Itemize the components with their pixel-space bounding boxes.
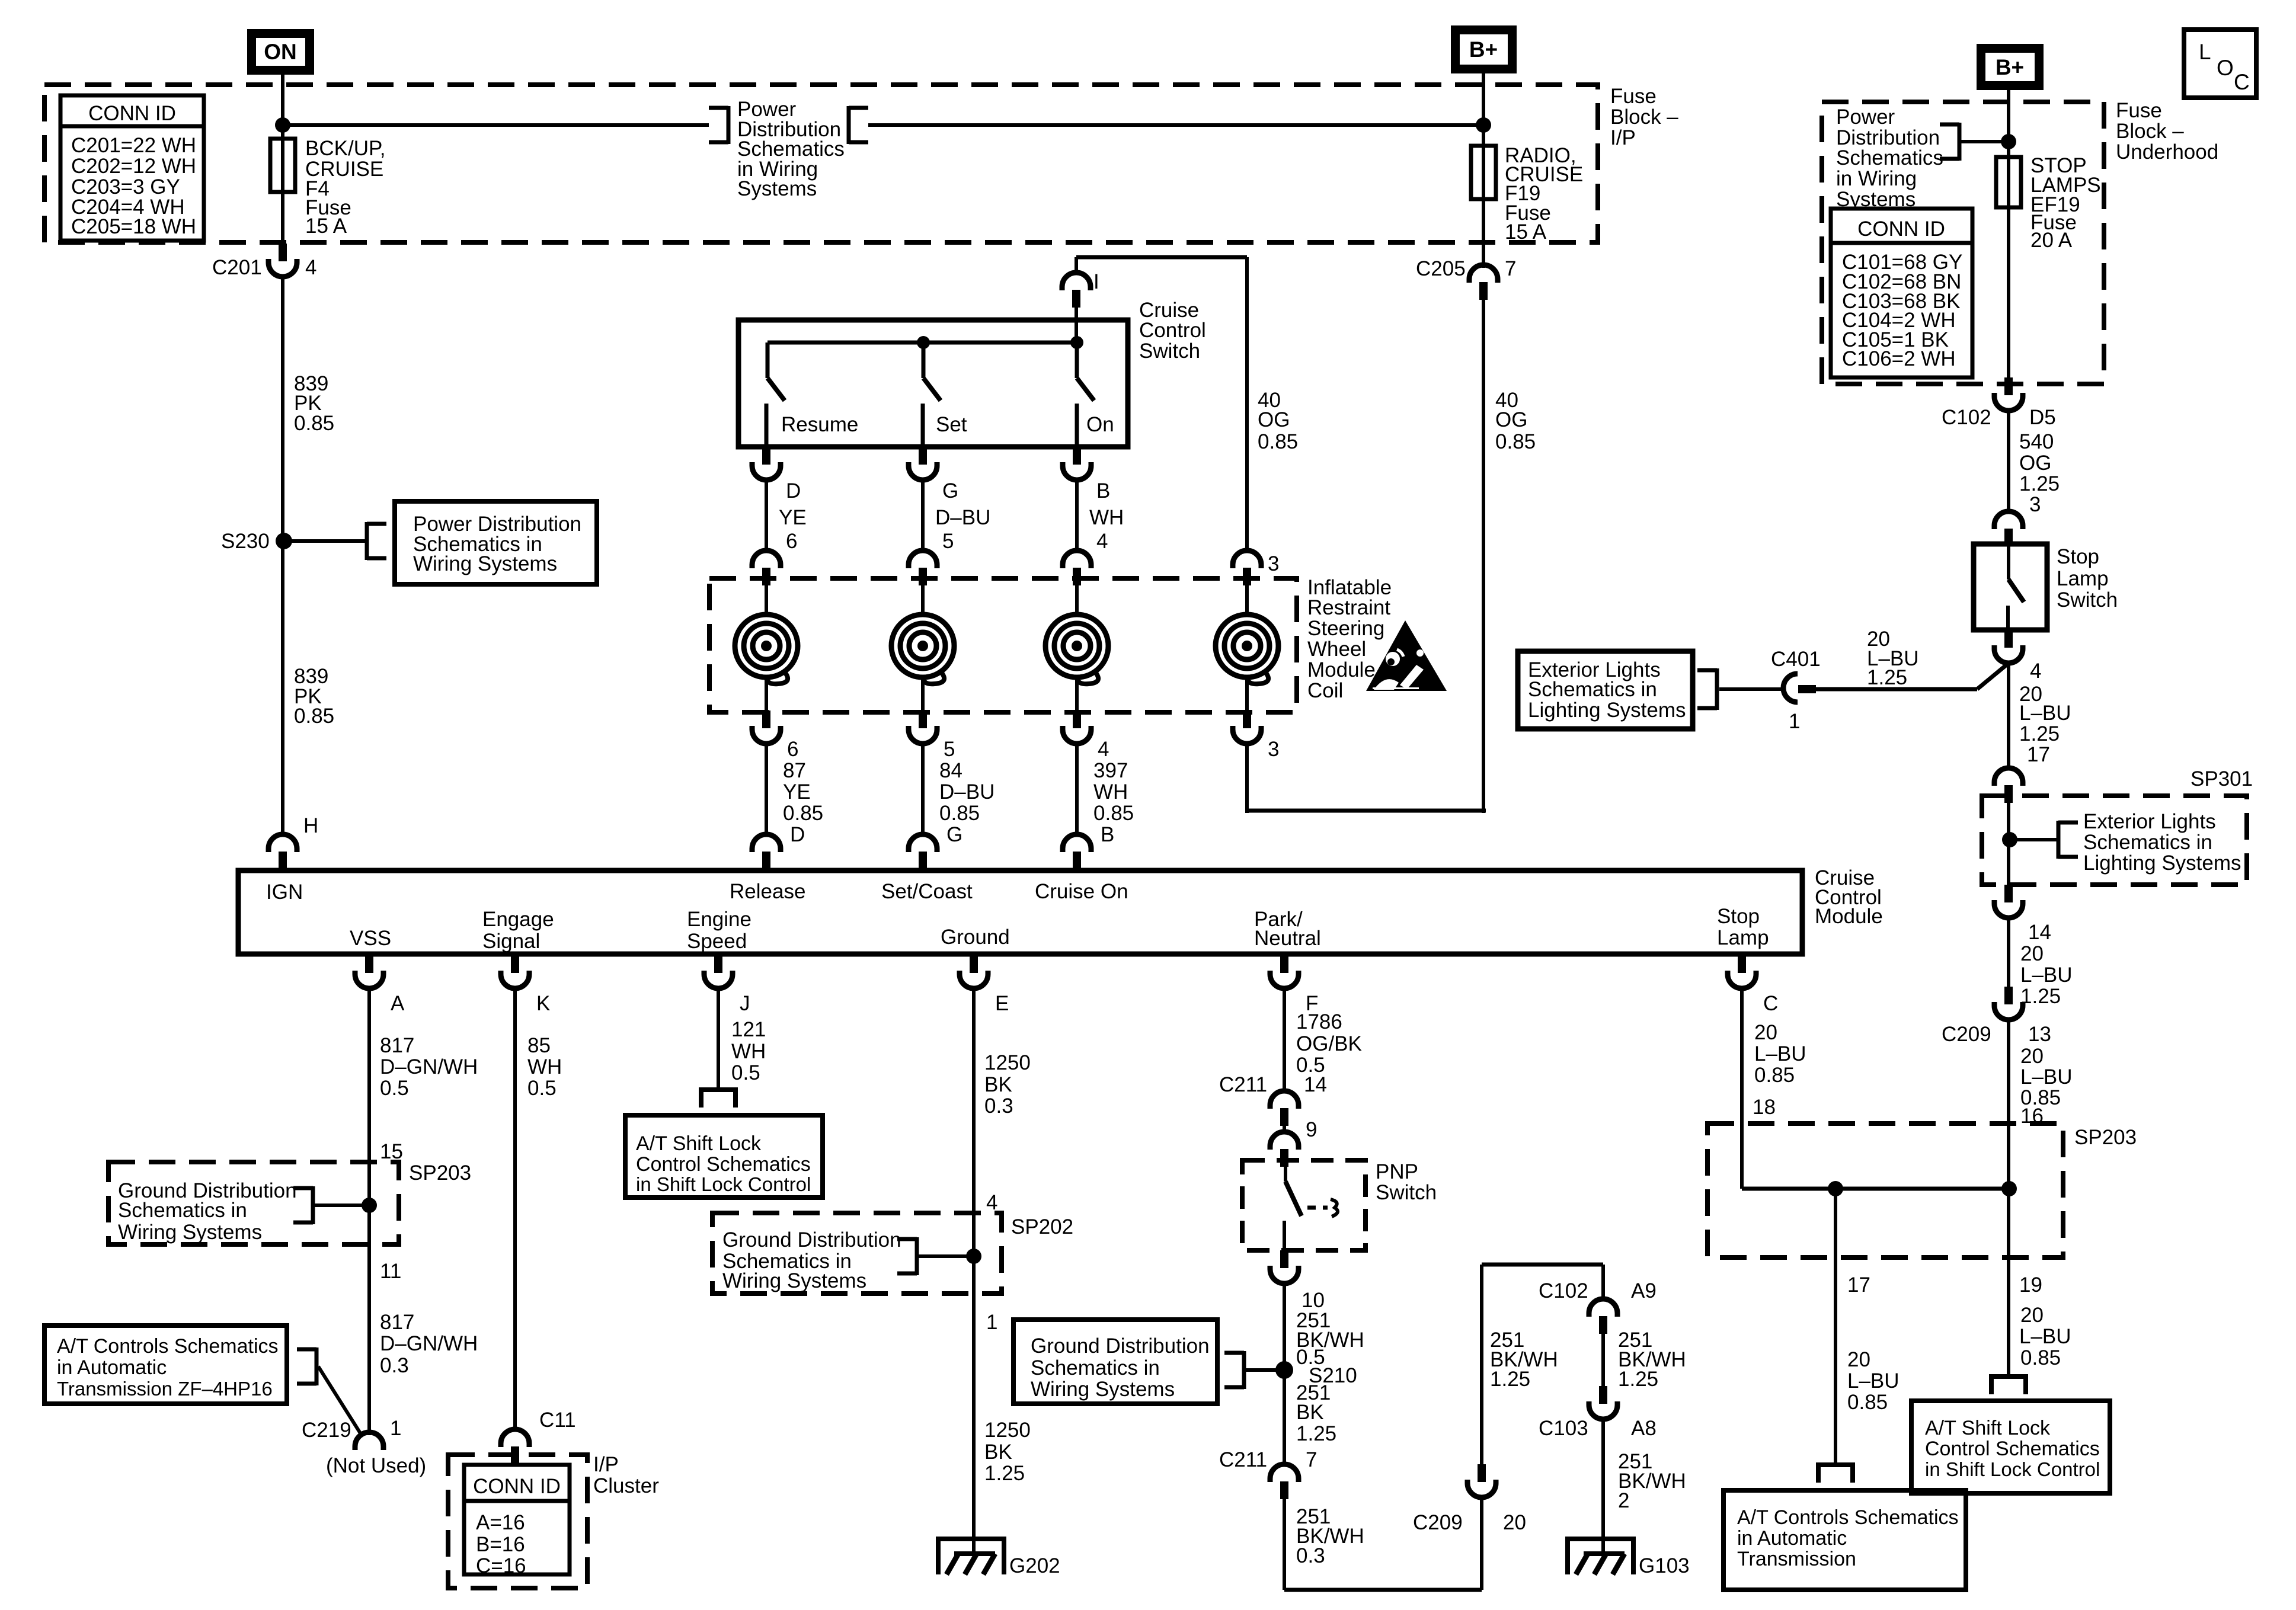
svg-text:84: 84 xyxy=(939,759,962,782)
svg-text:B=16: B=16 xyxy=(476,1533,525,1556)
svg-text:C11: C11 xyxy=(539,1409,576,1432)
svg-text:14: 14 xyxy=(1304,1073,1327,1096)
fuse block I/P dashed box xyxy=(44,85,1598,242)
svg-text:C211: C211 xyxy=(1219,1448,1267,1471)
callout Ground Distribution Schematics in Wiring Systems (S210) xyxy=(1013,1320,1244,1404)
connector C401 pin 1 xyxy=(1771,648,1821,733)
connector module pin H xyxy=(268,814,318,869)
connector switch pin D xyxy=(752,447,807,553)
connector module bottom pin J xyxy=(704,955,750,1015)
svg-text:L–BU: L–BU xyxy=(2020,1065,2073,1089)
node splice on A wire xyxy=(362,1198,377,1213)
svg-text:Ground Distribution: Ground Distribution xyxy=(1031,1334,1210,1358)
svg-text:CONN ID: CONN ID xyxy=(88,102,176,125)
svg-text:0.3: 0.3 xyxy=(984,1094,1013,1118)
svg-text:Restraint: Restraint xyxy=(1307,596,1390,619)
coil G xyxy=(891,585,954,710)
svg-text:5: 5 xyxy=(944,738,955,761)
svg-text:4: 4 xyxy=(1096,530,1108,553)
svg-text:E: E xyxy=(995,992,1009,1015)
svg-text:3: 3 xyxy=(2029,493,2041,516)
svg-text:Stop: Stop xyxy=(2057,545,2099,568)
svg-text:Block –: Block – xyxy=(1610,105,1678,129)
wire I stub xyxy=(1076,257,1099,293)
svg-text:Switch: Switch xyxy=(1139,340,1200,363)
wire 251 BK/WH 2 xyxy=(1603,1419,1686,1539)
svg-text:0.85: 0.85 xyxy=(294,412,334,435)
svg-text:0.85: 0.85 xyxy=(1495,430,1536,453)
wire 1250 BK 0.3 xyxy=(974,988,1031,1539)
svg-text:A: A xyxy=(391,992,405,1015)
svg-text:11: 11 xyxy=(380,1260,401,1283)
SRS warning triangle icon xyxy=(1366,620,1447,691)
svg-text:0.85: 0.85 xyxy=(1847,1391,1888,1414)
connector C201 pin 4 xyxy=(212,244,316,279)
svg-text:OG: OG xyxy=(1258,408,1290,431)
svg-text:Schematics in: Schematics in xyxy=(118,1199,247,1222)
svg-text:1.25: 1.25 xyxy=(2020,985,2061,1008)
svg-text:15 A: 15 A xyxy=(1505,220,1547,244)
connector switch pin G xyxy=(909,447,990,553)
connector into SP301 xyxy=(1994,768,2023,803)
CONN ID table (underhood) xyxy=(1831,209,1972,377)
svg-text:20: 20 xyxy=(2020,1045,2044,1068)
svg-text:J: J xyxy=(740,992,750,1015)
svg-text:in Shift Lock Control: in Shift Lock Control xyxy=(636,1173,811,1195)
svg-text:Exterior Lights: Exterior Lights xyxy=(2083,810,2216,833)
svg-text:0.85: 0.85 xyxy=(1093,802,1134,825)
wire ON feed down to fuse F4 xyxy=(281,75,284,244)
callout Exterior Lights Schematics in Lighting Systems box (C401) xyxy=(1518,651,1717,729)
wire C209 up and over to C102 xyxy=(1482,1265,1603,1464)
wire 839 PK 0.85 upper xyxy=(283,278,334,541)
svg-text:Schematics: Schematics xyxy=(1836,146,1943,169)
svg-text:20 A: 20 A xyxy=(2030,229,2073,252)
connector module top pin B xyxy=(1063,834,1091,869)
connector C211 pin 14 xyxy=(1219,1073,1327,1126)
wire SP203 internal bus xyxy=(1742,1187,2009,1191)
svg-text:1.25: 1.25 xyxy=(1296,1422,1336,1445)
splice SP203 dashed box (right) xyxy=(1707,1124,2137,1257)
wire 84 D–BU to module xyxy=(921,744,925,837)
svg-text:1250: 1250 xyxy=(984,1419,1031,1442)
svg-text:17: 17 xyxy=(2027,743,2050,766)
module pin labels row1 xyxy=(266,880,1128,904)
node bus junction Set xyxy=(917,336,930,349)
connector C209 pin 13 xyxy=(1942,987,2051,1046)
coil B xyxy=(1045,585,1108,710)
wire inside SP301 xyxy=(2007,803,2010,885)
svg-text:87: 87 xyxy=(783,759,806,782)
svg-text:C205=18 WH: C205=18 WH xyxy=(71,215,196,238)
svg-text:L–BU: L–BU xyxy=(1847,1369,1900,1393)
node splice S210 xyxy=(1275,1361,1357,1387)
svg-text:Schematics in: Schematics in xyxy=(1031,1356,1160,1379)
svg-text:BCK/UP,: BCK/UP, xyxy=(305,137,386,160)
svg-text:9: 9 xyxy=(1306,1118,1317,1141)
switch Set xyxy=(923,343,967,447)
svg-text:IGN: IGN xyxy=(266,881,303,904)
splice SP301 dashed box xyxy=(1982,767,2253,885)
fuse F4 xyxy=(270,137,386,238)
svg-text:Set: Set xyxy=(936,413,967,436)
svg-text:0.3: 0.3 xyxy=(1296,1544,1325,1567)
wire 40 OG 0.85 label (coil-4 drop) xyxy=(1258,389,1298,453)
svg-text:Wiring Systems: Wiring Systems xyxy=(722,1269,866,1292)
svg-text:0.5: 0.5 xyxy=(527,1077,557,1100)
svg-text:OG: OG xyxy=(2019,452,2051,475)
svg-text:D: D xyxy=(786,479,801,502)
svg-text:Control Schematics: Control Schematics xyxy=(1925,1438,2100,1460)
svg-text:L: L xyxy=(2199,40,2211,64)
stop lamp switch box xyxy=(1974,544,2118,630)
svg-text:Wiring Systems: Wiring Systems xyxy=(413,552,557,575)
wire G to coil xyxy=(921,480,925,551)
svg-text:OG/BK: OG/BK xyxy=(1296,1032,1362,1055)
svg-text:Switch: Switch xyxy=(2057,588,2118,612)
ground G202 xyxy=(938,1539,1060,1577)
wire 20 L-BU 0.85 (module C) xyxy=(1742,988,1806,1164)
connector module bottom pin C xyxy=(1728,955,1778,1015)
svg-text:817: 817 xyxy=(380,1311,414,1334)
svg-text:5: 5 xyxy=(942,530,954,553)
wire coil-4 down to link xyxy=(1245,744,1249,813)
node SP203 junction 16/19 xyxy=(2001,1181,2017,1196)
svg-text:Power: Power xyxy=(1836,105,1895,129)
svg-text:On: On xyxy=(1086,413,1114,436)
svg-text:SP301: SP301 xyxy=(2191,767,2253,790)
svg-text:1: 1 xyxy=(1789,710,1800,733)
svg-text:0.85: 0.85 xyxy=(939,802,980,825)
fuse block underhood dashed box xyxy=(1822,102,2104,384)
svg-text:1.25: 1.25 xyxy=(984,1462,1025,1485)
wire 817 D-GN/WH 0.5 xyxy=(369,988,478,1435)
svg-text:17: 17 xyxy=(1847,1273,1870,1297)
svg-text:L–BU: L–BU xyxy=(2019,702,2071,725)
svg-text:L–BU: L–BU xyxy=(2019,1325,2071,1348)
svg-text:1: 1 xyxy=(986,1311,997,1334)
node splice S230 xyxy=(221,530,292,553)
svg-text:WH: WH xyxy=(1093,780,1128,804)
svg-text:G202: G202 xyxy=(1009,1554,1060,1577)
connector module top pin G xyxy=(909,834,937,869)
terminal 17 to A/T controls xyxy=(1818,1465,1853,1483)
svg-text:85: 85 xyxy=(527,1034,551,1057)
svg-text:6: 6 xyxy=(787,738,798,761)
svg-text:Lamp: Lamp xyxy=(1717,926,1769,949)
callout line S230 xyxy=(284,539,365,543)
svg-text:Engine: Engine xyxy=(687,908,752,931)
svg-text:D–GN/WH: D–GN/WH xyxy=(380,1332,478,1355)
wire I into switch xyxy=(1075,308,1078,343)
wire 839 PK 0.85 lower xyxy=(283,541,334,834)
wire B to coil xyxy=(1075,480,1079,551)
svg-text:C: C xyxy=(2234,70,2250,94)
svg-text:0.85: 0.85 xyxy=(294,705,334,728)
wire link coil-4 to C205 branch xyxy=(1247,809,1486,813)
callout line SP203-left xyxy=(315,1204,369,1207)
splice SP202 dashed box xyxy=(712,1213,1073,1294)
node SP203 branch 17 xyxy=(1828,1181,1843,1196)
svg-text:0.5: 0.5 xyxy=(380,1077,409,1100)
svg-text:Engage: Engage xyxy=(482,908,554,931)
svg-text:C209: C209 xyxy=(1413,1511,1463,1534)
svg-text:18: 18 xyxy=(1753,1096,1776,1119)
wire B+ underhood down xyxy=(2007,90,2010,377)
connector coil bottom pin 4 xyxy=(1063,710,1134,846)
wire 251 BK/WH 0.3 xyxy=(1284,1499,1364,1590)
wire 40 OG 0.85 (C205 branch) xyxy=(1483,300,1536,813)
switch Resume xyxy=(766,343,858,447)
svg-text:Coil: Coil xyxy=(1307,679,1343,702)
svg-text:Speed: Speed xyxy=(687,930,747,953)
connector module bottom pin E xyxy=(960,955,1009,1015)
node junction at fuse F19 feed xyxy=(1476,117,1491,133)
callout Power Distribution Schematics in Wiring Systems (inline) xyxy=(709,98,868,200)
wire 20 L-BU 1.25 to SP301 xyxy=(2009,664,2071,769)
svg-text:WH: WH xyxy=(527,1055,562,1078)
svg-text:Wheel: Wheel xyxy=(1307,638,1366,661)
callout Ground Distribution Schematics in Wiring Systems (SP202) xyxy=(722,1228,917,1292)
connector coil top pin 6 xyxy=(752,550,781,585)
connector module bottom pin K xyxy=(501,955,550,1015)
wire 85 WH 0.5 xyxy=(515,988,562,1429)
connector stop lamp switch pin 3 xyxy=(1994,511,2023,546)
svg-text:Steering: Steering xyxy=(1307,617,1384,640)
fuse EF19 xyxy=(1996,154,2101,252)
svg-text:A/T Shift Lock: A/T Shift Lock xyxy=(636,1132,762,1155)
svg-text:20: 20 xyxy=(1503,1511,1526,1534)
svg-text:D–BU: D–BU xyxy=(935,506,990,529)
svg-text:Transmission ZF–4HP16: Transmission ZF–4HP16 xyxy=(57,1378,273,1400)
svg-text:Fuse: Fuse xyxy=(1610,85,1657,108)
svg-text:CONN ID: CONN ID xyxy=(473,1475,561,1498)
wire C211 to PNP xyxy=(1283,1126,1286,1132)
connector coil-4 bottom pin 3 xyxy=(1233,710,1279,761)
fuse F19 xyxy=(1471,144,1583,244)
svg-text:C201: C201 xyxy=(212,256,262,279)
wire branch 17 to terminal xyxy=(1835,1189,1900,1463)
svg-text:C201=22 WH: C201=22 WH xyxy=(71,134,196,157)
connector module bottom pin F xyxy=(1270,955,1318,1015)
wire switch top link to coil-4 drop xyxy=(1076,257,1247,551)
svg-text:I/P: I/P xyxy=(1610,126,1636,149)
callout A/T Controls Schematics box xyxy=(44,1326,316,1404)
power symbol B+ (underhood) xyxy=(1977,44,2044,90)
connector PNP bottom pin 10 xyxy=(1270,1250,1299,1283)
svg-text:397: 397 xyxy=(1093,759,1128,782)
svg-text:Cluster: Cluster xyxy=(593,1474,659,1497)
svg-text:C202=12 WH: C202=12 WH xyxy=(71,155,196,178)
svg-text:BK: BK xyxy=(984,1073,1012,1096)
callout Power Distribution Schematics in Wiring Systems (S230) xyxy=(367,501,597,584)
svg-text:Stop: Stop xyxy=(1717,905,1760,928)
callout line to EF19 feed xyxy=(1959,140,2009,143)
svg-text:A/T Controls Schematics: A/T Controls Schematics xyxy=(1737,1506,1959,1529)
connector coil top pin 4 xyxy=(1063,550,1091,585)
callout Power Distribution Schematics in Wiring Systems (underhood) xyxy=(1836,105,1959,211)
power symbol ON xyxy=(247,29,314,75)
svg-text:C211: C211 xyxy=(1219,1073,1267,1096)
svg-text:3: 3 xyxy=(1268,738,1279,761)
connector C11 xyxy=(501,1409,576,1464)
svg-text:4: 4 xyxy=(305,256,316,279)
svg-text:Ground Distribution: Ground Distribution xyxy=(722,1228,901,1251)
svg-text:WH: WH xyxy=(731,1040,766,1063)
svg-text:817: 817 xyxy=(380,1034,414,1057)
ground G103 xyxy=(1568,1539,1690,1577)
connector switch pin I xyxy=(1062,273,1091,308)
svg-text:6: 6 xyxy=(786,530,797,553)
wire switch common bus xyxy=(768,341,1077,345)
CONN ID table (fuse block I/P) xyxy=(60,95,204,241)
svg-text:B: B xyxy=(1096,479,1110,502)
connector coil-4 top pin 3 xyxy=(1233,550,1279,585)
node splice SP301 xyxy=(2002,832,2017,847)
svg-text:Neutral: Neutral xyxy=(1254,927,1321,950)
svg-text:A9: A9 xyxy=(1631,1279,1657,1302)
svg-text:A8: A8 xyxy=(1631,1417,1657,1440)
svg-text:C209: C209 xyxy=(1942,1023,1991,1046)
svg-text:Systems: Systems xyxy=(737,177,817,200)
connector C102 pin A9 xyxy=(1539,1279,1657,1334)
svg-text:0.85: 0.85 xyxy=(2020,1346,2061,1369)
wire 540 OG 1.25 xyxy=(2009,410,2060,516)
svg-text:G: G xyxy=(942,479,958,502)
connector stop lamp switch pin 4 xyxy=(1994,630,2041,683)
svg-text:Release: Release xyxy=(730,880,805,903)
callout line SP202 xyxy=(919,1254,974,1258)
location grid logo LOC xyxy=(2184,30,2256,98)
svg-text:Schematics in: Schematics in xyxy=(1528,678,1657,701)
svg-text:0.3: 0.3 xyxy=(380,1354,409,1377)
callout A/T Shift Lock Control Schematics box (right) xyxy=(1911,1401,2110,1493)
svg-text:1.25: 1.25 xyxy=(1867,666,1907,689)
svg-text:1250: 1250 xyxy=(984,1051,1031,1074)
svg-text:C102: C102 xyxy=(1942,406,1991,429)
connector module top pin D xyxy=(752,834,781,869)
wire 1786 OG/BK 0.5 xyxy=(1284,988,1362,1091)
splice SP203 dashed box (left) xyxy=(108,1161,471,1244)
svg-text:G103: G103 xyxy=(1639,1554,1690,1577)
svg-text:D–GN/WH: D–GN/WH xyxy=(380,1055,478,1078)
svg-text:Fuse: Fuse xyxy=(2116,99,2162,122)
svg-text:A/T Controls Schematics: A/T Controls Schematics xyxy=(57,1335,279,1358)
terminal J to shift lock control xyxy=(701,1090,736,1108)
svg-text:Control: Control xyxy=(1139,319,1206,342)
svg-text:I/P: I/P xyxy=(593,1453,619,1476)
wire 251 BK/WH 0.5 / S210 / 251 BK 1.25 xyxy=(1284,1283,1364,1464)
svg-text:B+: B+ xyxy=(1996,55,2024,79)
svg-text:BK: BK xyxy=(1296,1401,1324,1424)
svg-text:0.5: 0.5 xyxy=(731,1061,760,1084)
svg-text:SP203: SP203 xyxy=(2074,1126,2137,1149)
svg-text:BK: BK xyxy=(984,1441,1012,1464)
svg-text:20: 20 xyxy=(1754,1021,1777,1044)
svg-text:1: 1 xyxy=(390,1417,401,1440)
svg-text:SP202: SP202 xyxy=(1011,1215,1073,1238)
I/P cluster dashed box xyxy=(448,1453,659,1588)
svg-text:4: 4 xyxy=(1098,738,1109,761)
svg-text:Cruise On: Cruise On xyxy=(1035,880,1128,903)
callout A/T Controls Schematics in Automatic Transmission box xyxy=(1723,1490,1966,1590)
svg-text:C102: C102 xyxy=(1539,1279,1588,1302)
svg-text:S210: S210 xyxy=(1309,1364,1357,1387)
svg-text:VSS: VSS xyxy=(350,927,391,950)
svg-text:(Not Used): (Not Used) xyxy=(326,1454,426,1477)
callout line S210 xyxy=(1246,1368,1277,1372)
svg-text:D: D xyxy=(790,823,805,846)
cruise control module box xyxy=(238,866,1883,954)
svg-text:4: 4 xyxy=(2030,660,2041,683)
svg-text:A/T Shift Lock: A/T Shift Lock xyxy=(1925,1417,2051,1439)
coil 3 (coil-4) xyxy=(1216,585,1278,710)
wire B+ down to F19 xyxy=(1482,73,1485,268)
svg-text:Set/Coast: Set/Coast xyxy=(881,880,973,903)
svg-text:in Automatic: in Automatic xyxy=(1737,1527,1847,1550)
svg-text:PNP: PNP xyxy=(1376,1160,1418,1183)
connector C103 pin A8 xyxy=(1539,1386,1657,1440)
svg-text:Schematics in: Schematics in xyxy=(2083,831,2212,854)
svg-text:D5: D5 xyxy=(2029,406,2056,429)
wire 19 branch xyxy=(2009,1189,2071,1375)
node junction at fuse F4 feed xyxy=(275,117,290,133)
wire 14 / 20 L-BU 1.25 xyxy=(2009,918,2073,1008)
connector coil top pin 5 xyxy=(909,550,937,585)
svg-text:20: 20 xyxy=(2020,942,2044,965)
svg-text:Underhood: Underhood xyxy=(2116,140,2218,164)
svg-text:13: 13 xyxy=(2028,1023,2051,1046)
wire C401 branch diagonal xyxy=(1977,664,2008,689)
wire 397 WH to module xyxy=(1075,744,1079,837)
connector out of SP301 xyxy=(1994,885,2023,918)
svg-text:B: B xyxy=(1101,823,1114,846)
svg-text:Lamp: Lamp xyxy=(2057,567,2109,590)
svg-text:O: O xyxy=(2217,56,2234,80)
svg-text:I: I xyxy=(1093,270,1099,293)
callout line SP301 xyxy=(2010,838,2057,841)
svg-text:C: C xyxy=(1763,992,1778,1015)
wire bus to F19 (right segment) xyxy=(868,123,1483,127)
svg-text:540: 540 xyxy=(2019,430,2054,453)
svg-text:1.25: 1.25 xyxy=(1490,1368,1530,1391)
svg-text:WH: WH xyxy=(1089,506,1124,529)
svg-text:B+: B+ xyxy=(1469,37,1498,62)
svg-text:20: 20 xyxy=(2020,1304,2044,1327)
svg-text:YE: YE xyxy=(779,506,807,529)
svg-text:C205: C205 xyxy=(1416,257,1466,280)
svg-text:SP203: SP203 xyxy=(409,1161,471,1185)
svg-text:3: 3 xyxy=(1268,552,1279,575)
svg-text:Module: Module xyxy=(1815,905,1883,928)
svg-text:Wiring Systems: Wiring Systems xyxy=(118,1221,262,1244)
switch On xyxy=(1077,343,1114,447)
inflatable restraint coil dashed box xyxy=(709,576,1392,712)
connector coil bottom pin 6 xyxy=(752,710,823,846)
connector switch pin B xyxy=(1063,447,1124,553)
svg-text:2: 2 xyxy=(1618,1489,1629,1512)
svg-text:1.25: 1.25 xyxy=(2019,472,2060,495)
svg-text:Block –: Block – xyxy=(2116,120,2184,143)
svg-text:in Shift Lock Control: in Shift Lock Control xyxy=(1925,1458,2100,1480)
wire D to coil xyxy=(765,480,768,551)
node junction EF19 feed xyxy=(2001,134,2016,149)
svg-text:Signal: Signal xyxy=(482,930,540,953)
svg-text:L–BU: L–BU xyxy=(2020,964,2073,987)
svg-text:D–BU: D–BU xyxy=(939,780,994,804)
label Fuse Block I/P xyxy=(1610,85,1678,149)
svg-text:C=16: C=16 xyxy=(476,1554,526,1577)
